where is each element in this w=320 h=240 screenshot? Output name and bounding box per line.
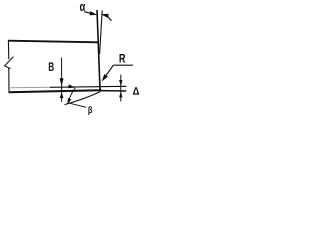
tip corner radius: [100, 88, 102, 91]
delta dim line: [120, 75, 122, 102]
flat reference line left faint part: [11, 86, 51, 89]
B dim down arrowhead: [60, 78, 64, 86]
alpha dim right arrowhead: [101, 14, 109, 18]
tip lower reference line: [100, 90, 126, 92]
delta dim up arrowhead: [119, 92, 122, 98]
B label: [49, 62, 54, 71]
alpha dim left arrowhead: [89, 11, 97, 15]
blade left edge lower: [8, 68, 10, 92]
delta dim down arrowhead: [119, 80, 122, 86]
blade bottom edge: [9, 90, 101, 92]
R leader diagonal: [103, 65, 113, 79]
blade left edge upper: [7, 40, 9, 59]
beta bevel line: [65, 92, 101, 105]
alpha dim left tail: [84, 12, 92, 14]
delta label: [133, 87, 139, 94]
R leader arrowhead: [102, 74, 108, 82]
B dim line: [61, 58, 63, 102]
B dim up arrowhead: [60, 92, 64, 98]
beta label: [88, 106, 92, 115]
R label: [120, 54, 126, 63]
blade front face line: [97, 10, 100, 91]
front face reference extension: [100, 11, 103, 55]
alpha dim right tail: [106, 15, 111, 20]
beta label leader tail: [70, 103, 87, 107]
flat reference line: [50, 86, 127, 87]
alpha label: [80, 4, 85, 11]
beta dim arc: [68, 88, 75, 103]
break symbol zigzag: [5, 57, 14, 69]
R leader shelf: [113, 64, 133, 66]
beta arc upper arrowhead: [68, 84, 75, 88]
blade top edge: [8, 41, 98, 43]
beta arc lower arrowhead: [67, 98, 71, 105]
